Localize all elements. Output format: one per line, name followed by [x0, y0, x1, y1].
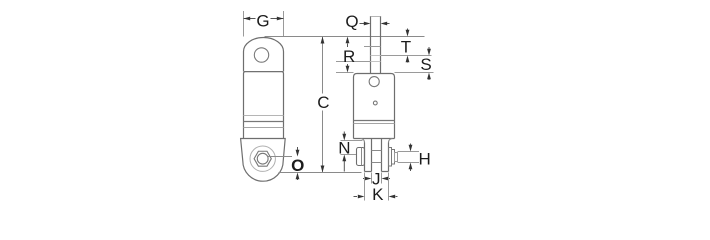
dim R top arrow — [347, 44, 349, 48]
dim H feature line bottom — [398, 162, 420, 164]
left view collar line 2 — [244, 121, 284, 123]
svg-text:T: T — [401, 37, 411, 56]
dim J extension line right — [381, 173, 383, 184]
dim R bottom arrow — [347, 64, 349, 66]
dim C top arrow — [321, 37, 325, 44]
dim K extension line right — [388, 173, 390, 201]
svg-text:S: S — [420, 55, 431, 74]
bolt head — [357, 148, 365, 166]
dim O top arrow — [297, 147, 299, 151]
svg-text:R: R — [343, 47, 355, 66]
dim J left arrow — [363, 178, 365, 180]
right view small hole — [373, 101, 377, 105]
top reference line (tangent of head / stud shoulder) — [265, 36, 425, 38]
right view body bottom line — [354, 138, 395, 140]
left view eye hole — [254, 48, 268, 62]
dim G line and arrows — [244, 18, 284, 20]
svg-text:K: K — [372, 185, 384, 204]
right view right leg — [382, 139, 389, 172]
dim C bottom arrow — [321, 166, 325, 173]
dim G extension line right — [283, 11, 285, 37]
dim N tick bottom — [341, 154, 357, 156]
left view head (dome eye) — [244, 38, 284, 72]
right view stud step line B (across stem, faint) — [371, 55, 381, 57]
left view head-body joint line — [244, 71, 284, 73]
right view top hole — [369, 77, 379, 87]
right view stud stem — [371, 16, 381, 74]
svg-text:G: G — [256, 12, 269, 31]
dim Q left arrow — [360, 23, 365, 25]
dim N tick top — [341, 140, 363, 142]
bolt shank lines — [372, 151, 382, 163]
right view stud step line C across stem — [371, 61, 381, 63]
svg-text:H: H — [419, 150, 431, 169]
bolt nut right — [392, 150, 395, 165]
right view leg fillet right — [389, 139, 393, 143]
dim H top arrow — [410, 144, 412, 146]
dim O feature line top — [268, 156, 292, 158]
dim K extension line left — [364, 173, 366, 201]
dim K left arrow — [354, 196, 358, 198]
dim J extension line left — [371, 173, 373, 184]
right view body — [354, 74, 395, 139]
dim K right arrow — [396, 196, 398, 198]
dim H feature line top — [398, 151, 420, 153]
svg-text:C: C — [317, 93, 329, 112]
dim N top arrow — [343, 132, 345, 135]
bolt thread stub — [395, 153, 398, 162]
dim T top arrow — [407, 29, 409, 32]
right view collar line 2 — [354, 123, 395, 125]
bolt head facet line — [361, 148, 363, 166]
dim J right arrow — [388, 178, 390, 180]
left view body (barrel) — [244, 72, 284, 139]
right view stud top cap — [371, 16, 381, 18]
right view stud step line C — [336, 61, 371, 63]
right view collar line 1 — [354, 120, 395, 122]
dim Q right arrow — [387, 23, 390, 25]
svg-text:Q: Q — [345, 12, 358, 31]
dim G extension line left — [243, 11, 245, 37]
body top extension line (R/S bottom) — [336, 72, 434, 74]
right view stud step line B right — [381, 55, 432, 57]
dim O feature line bottom (long) — [279, 172, 362, 174]
dim S top arrow — [428, 47, 430, 50]
dim C line — [322, 37, 324, 173]
svg-text:N: N — [338, 138, 350, 157]
dim T bottom arrow — [407, 61, 409, 63]
left view clevis housing — [241, 139, 286, 182]
left view collar line 3 — [244, 127, 284, 129]
right view stud step line A — [364, 46, 381, 48]
right view left leg — [365, 139, 372, 172]
left view pin hole — [257, 153, 268, 164]
dim O bottom arrow — [297, 178, 299, 181]
dim H bottom arrow — [410, 169, 412, 171]
svg-text:O: O — [291, 156, 304, 175]
right view leg fillet left — [361, 139, 365, 143]
left view hex nut — [254, 151, 271, 166]
dim N bottom arrow — [343, 161, 345, 172]
left view boss circle — [250, 146, 275, 171]
left view collar line 1 — [244, 115, 284, 117]
bolt washer right — [389, 148, 392, 167]
dim S bottom arrow — [428, 78, 430, 80]
